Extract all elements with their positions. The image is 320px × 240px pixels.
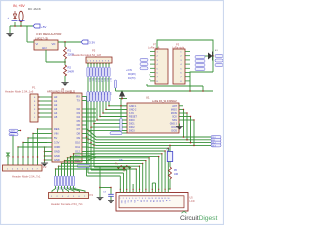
- svg-text:A1: A1: [54, 99, 58, 103]
- svg-text:D12: D12: [75, 150, 80, 154]
- svg-text:GND 2: GND 2: [129, 109, 137, 112]
- svg-text:D7: D7: [162, 200, 164, 202]
- svg-text:RX: RX: [76, 95, 80, 99]
- svg-text:D10: D10: [88, 78, 90, 82]
- svg-text:IN, +5V: IN, +5V: [13, 4, 25, 8]
- svg-text:D5: D5: [77, 119, 81, 123]
- svg-text:D7: D7: [109, 93, 111, 95]
- svg-text:D0: D0: [88, 93, 90, 95]
- svg-text:E: E: [136, 200, 138, 201]
- svg-text:Header Female-2.54_7x1: Header Female-2.54_7x1: [51, 202, 83, 206]
- svg-text:+5V: +5V: [41, 25, 46, 29]
- svg-text:DIO5: DIO5: [171, 130, 177, 133]
- svg-text:D1(TX): D1(TX): [128, 78, 136, 80]
- svg-text:D0(RX): D0(RX): [128, 74, 136, 76]
- svg-text:DIO3: DIO3: [129, 130, 135, 133]
- svg-text:D7: D7: [77, 127, 81, 131]
- svg-text:A2: A2: [54, 103, 58, 107]
- svg-text:GND: GND: [54, 150, 60, 154]
- svg-text:D16: D16: [106, 78, 108, 82]
- svg-text:D9: D9: [77, 136, 81, 140]
- svg-text:+3.3V: +3.3V: [126, 70, 133, 72]
- svg-text:+12V: +12V: [10, 131, 16, 133]
- svg-text:P4: P4: [90, 193, 94, 197]
- svg-text:GND: GND: [10, 134, 15, 136]
- svg-text:D2: D2: [146, 200, 148, 202]
- svg-text:D15: D15: [103, 78, 105, 82]
- svg-text:VIN: VIN: [54, 132, 58, 136]
- svg-text:RS: RS: [130, 200, 132, 202]
- svg-text:3.3V: 3.3V: [89, 41, 95, 45]
- svg-text:D6: D6: [77, 123, 81, 127]
- svg-text:D4: D4: [100, 93, 102, 95]
- svg-text:R2: R2: [68, 66, 72, 70]
- svg-text:MISO: MISO: [171, 109, 177, 112]
- svg-text:D3: D3: [77, 111, 81, 115]
- svg-text:A0: A0: [54, 95, 58, 99]
- svg-text:TX: TX: [77, 99, 81, 103]
- svg-text:A5: A5: [54, 115, 58, 119]
- svg-text:D4: D4: [152, 200, 154, 202]
- svg-text:D1: D1: [91, 93, 93, 95]
- svg-text:D2: D2: [94, 93, 96, 95]
- svg-text:VO: VO: [52, 42, 56, 46]
- svg-text:RES: RES: [54, 127, 60, 131]
- svg-text:5V: 5V: [54, 136, 57, 140]
- svg-text:GND: GND: [54, 158, 60, 162]
- svg-text:240R: 240R: [68, 70, 74, 74]
- svg-text:D13: D13: [97, 78, 99, 82]
- svg-text:CircuitDigest: CircuitDigest: [180, 215, 217, 222]
- svg-text:VSS: VSS: [120, 200, 122, 203]
- svg-text:LoRa PA_W 433MHZ: LoRa PA_W 433MHZ: [152, 99, 177, 103]
- svg-text:ANT: ANT: [172, 105, 177, 108]
- svg-text:D5: D5: [103, 93, 105, 95]
- svg-text:R1: R1: [68, 49, 72, 53]
- svg-text:P5: P5: [92, 49, 96, 53]
- svg-text:D5: D5: [155, 200, 157, 202]
- svg-text:HeaderFemale2.54_1x8: HeaderFemale2.54_1x8: [72, 53, 101, 57]
- svg-text:A3: A3: [54, 107, 58, 111]
- svg-text:D3: D3: [149, 200, 151, 202]
- svg-text:ADJ: ADJ: [42, 47, 47, 50]
- svg-text:D0: D0: [139, 200, 141, 202]
- svg-text:A4: A4: [54, 111, 58, 115]
- svg-text:D11: D11: [91, 78, 93, 81]
- svg-text:10R: 10R: [174, 174, 179, 176]
- svg-text:IORF: IORF: [54, 145, 61, 149]
- svg-text:Header Male 2.54_1x6: Header Male 2.54_1x6: [5, 89, 34, 93]
- svg-text:D6: D6: [106, 93, 108, 95]
- svg-text:D1: D1: [143, 200, 145, 202]
- svg-text:D6: D6: [159, 200, 161, 202]
- svg-text:D17: D17: [109, 78, 111, 82]
- svg-text:D2: D2: [77, 107, 81, 111]
- svg-text:D11: D11: [75, 145, 80, 149]
- svg-text:D8: D8: [77, 132, 81, 136]
- svg-text:P2: P2: [43, 165, 47, 169]
- svg-text:D12: D12: [94, 78, 96, 82]
- svg-text:D3: D3: [97, 93, 99, 95]
- svg-text:3.3V: 3.3V: [54, 141, 60, 145]
- svg-text:D4: D4: [77, 115, 81, 119]
- svg-text:DIO0: DIO0: [129, 119, 135, 122]
- svg-text:GND: GND: [54, 154, 60, 158]
- svg-text:Header Male-2.54_7x1: Header Male-2.54_7x1: [12, 174, 41, 178]
- svg-text:NSS: NSS: [172, 119, 177, 122]
- svg-text:D10: D10: [75, 141, 80, 145]
- svg-text:LCD: LCD: [190, 200, 195, 203]
- svg-text:U1: U1: [146, 96, 150, 100]
- svg-text:GND 1: GND 1: [129, 105, 137, 108]
- svg-text:VI: VI: [36, 42, 39, 46]
- svg-text:DC JACK: DC JACK: [28, 7, 41, 11]
